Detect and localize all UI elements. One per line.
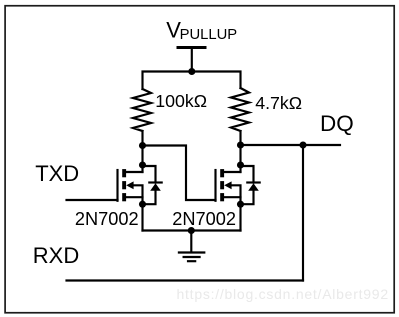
transistor Q2 body stub and source column: [229, 185, 241, 230]
svg-text:TXD: TXD: [35, 161, 79, 186]
diode D1 bottom lead: [143, 190, 156, 204]
resistor R2 4.7k zigzag: [231, 88, 249, 131]
svg-text:DQ: DQ: [320, 111, 354, 136]
svg-text:2N7002: 2N7002: [172, 209, 236, 229]
transistor Q1 body stub and source column: [131, 185, 143, 230]
wire: gate link node A to Q2 gate: [143, 146, 216, 201]
junction Q2 drain: [237, 161, 244, 168]
diode D2 top lead: [241, 166, 254, 183]
transistor Q1 source stub: [126, 196, 143, 198]
wire: VPULLUP stem: [191, 48, 193, 72]
svg-text:4.7kΩ: 4.7kΩ: [255, 93, 302, 113]
junction Q2 source: [237, 201, 244, 208]
junction DQ tap: [299, 141, 306, 148]
transistor Q1 channel segments: [122, 169, 126, 177]
svg-text:100kΩ: 100kΩ: [155, 91, 207, 111]
transistor Q1 drain stub: [126, 171, 143, 173]
diode D1 cathode bar: [149, 181, 161, 183]
wire: DQ rail: [241, 144, 341, 146]
svg-text:https://blog.csdn.net/Albert99: https://blog.csdn.net/Albert992: [177, 286, 389, 302]
wire: RXD lead: [67, 279, 304, 281]
svg-text:RXD: RXD: [33, 243, 79, 268]
transistor Q1 gate bar: [116, 170, 118, 201]
ground bar 3: [188, 260, 195, 262]
ground bar 2: [184, 256, 200, 258]
transistor Q1 body arrow: [126, 181, 133, 189]
power symbol VPULLUP bar: [178, 46, 205, 49]
resistor R1 100k zigzag: [133, 89, 151, 131]
transistor Q2 gate bar: [214, 170, 216, 201]
junction ground node: [188, 227, 195, 234]
diode D2 cathode bar: [247, 181, 259, 183]
transistor Q2 channel segments: [220, 169, 224, 177]
wire: ground rail: [143, 229, 241, 231]
junction node A (R1 bottom): [139, 142, 146, 149]
diode D1 triangle: [150, 183, 161, 191]
diode D2 triangle: [248, 183, 259, 191]
wire: TXD lead: [67, 199, 118, 201]
junction Q1 source: [139, 201, 146, 208]
transistor Q2 source stub: [224, 196, 241, 198]
wire: DQ to RXD vertical: [302, 145, 304, 281]
transistor Q2 body arrow: [224, 181, 231, 189]
ground bar 1: [179, 251, 204, 253]
wire: ground stem: [190, 231, 192, 253]
svg-text:PULLUP: PULLUP: [180, 27, 238, 43]
junction VPULLUP node: [188, 68, 195, 75]
transistor Q2 drain stub: [224, 171, 241, 173]
wire: R1 bottom lead to drain: [141, 131, 143, 172]
diode D2 bottom lead: [241, 190, 254, 204]
wire: top rail: [143, 72, 241, 90]
svg-text:2N7002: 2N7002: [75, 209, 139, 229]
junction Q1 drain: [139, 161, 146, 168]
wire: R2 bottom lead to drain: [239, 131, 241, 172]
diode D1 top lead: [143, 166, 156, 183]
junction DQ node (R2 bottom): [237, 141, 244, 148]
